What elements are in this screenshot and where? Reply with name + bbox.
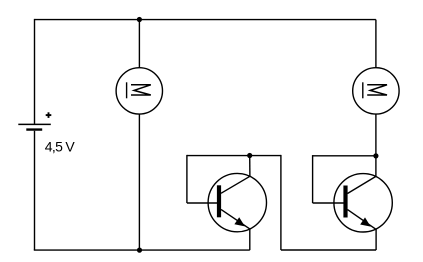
wire: Q1 base loop left vertical (186, 155, 188, 203)
wire: Q2 base stub (313, 202, 344, 204)
wire: battery negative lead down to bottom rail (34, 131, 36, 250)
wire: loop right vertical down (Q1 collector to Q2 emitter link) (280, 155, 282, 250)
wire: motor M2 lower lead to Q2 collector (375, 114, 377, 177)
transistor Q2 collector diagonal (348, 177, 376, 194)
wire: middle bottom connector to Q2 emitter (281, 249, 376, 251)
node: junction dot Q1 collector / loop (247, 153, 252, 158)
node: junction dot motor M2 lead / Q2 base loop (373, 153, 378, 158)
battery value label 4,5 V (45, 138, 76, 154)
svg-text:4,5 V: 4,5 V (45, 138, 76, 154)
battery polarity label + (46, 112, 52, 118)
wire: Q2 base loop left vertical (312, 155, 314, 203)
transistor Q1 body (circle) (208, 173, 266, 231)
wire: battery positive lead (vertical, left side) (34, 19, 36, 124)
node: junction dot bottom rail / motor M1 (137, 248, 142, 253)
wire: motor M1 lower lead down to bottom rail (138, 114, 140, 250)
transistor Q1 emitter arrow (234, 217, 245, 226)
wire: Q1 base stub (187, 202, 217, 204)
transistor Q1 emitter diagonal (221, 209, 250, 229)
wire: Q2 base loop top horizontal (313, 155, 376, 157)
motor M2 symbol: letter M rotated 90deg (367, 85, 387, 95)
transistor Q2 emitter arrow (360, 217, 371, 226)
wire: Q2 emitter lead up from connector (375, 229, 377, 250)
transistor Q2 emitter diagonal (348, 210, 376, 230)
motor M2 symbol: bar of rotated underlined M (362, 82, 364, 98)
battery B1 positive plate (long) (18, 123, 51, 125)
wire: Q1 base loop top horizontal (187, 155, 281, 157)
motor M2 body (circle) (353, 68, 399, 114)
node: junction dot top rail / motor M1 branch (137, 17, 142, 22)
motor M1 symbol: bar of rotated underlined M (126, 82, 128, 98)
transistor Q2 base bar (343, 186, 347, 218)
wire: Q1 collector lead (dot to circle) (249, 156, 251, 177)
transistor Q1 base bar (217, 185, 221, 217)
transistor Q1 collector diagonal (221, 176, 250, 193)
wire: right motor branch vertical from top rail (375, 20, 377, 68)
battery B1 negative plate (short, thick) (26, 128, 42, 130)
wire: Q1 emitter lead down to bottom rail (249, 229, 251, 250)
wire: motor M1 upper lead (138, 20, 140, 68)
wire: top rail from battery + to right motor branch (35, 19, 376, 21)
motor M1 symbol: letter M rotated 90deg (131, 85, 151, 95)
motor M1 body (circle) (116, 68, 162, 114)
transistor Q2 body (circle) (334, 174, 392, 232)
wire: bottom rail from battery to Q1 emitter (34, 249, 250, 251)
